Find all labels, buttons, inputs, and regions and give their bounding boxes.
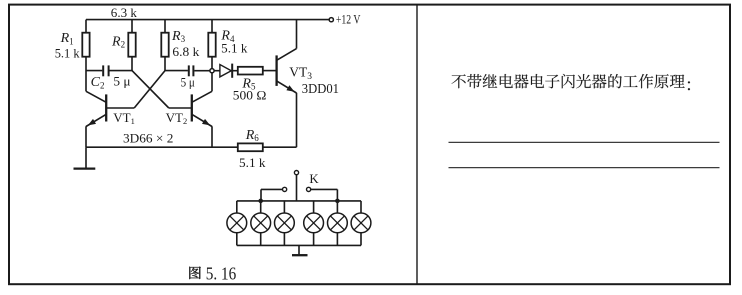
terminal +12 V xyxy=(329,18,333,22)
resistor R2 xyxy=(128,20,135,71)
svg-text:+12 V: +12 V xyxy=(336,12,361,27)
svg-text:R3: R3 xyxy=(171,29,186,44)
svg-text:K: K xyxy=(309,172,319,186)
svg-text:5. 16: 5. 16 xyxy=(206,263,236,283)
svg-text:VT1: VT1 xyxy=(113,110,135,126)
transistor VT2 xyxy=(169,73,212,147)
answer line 2 xyxy=(449,167,720,169)
transistor VT1 xyxy=(86,91,134,147)
resistor R1 xyxy=(82,20,89,92)
ground (left, emitter) xyxy=(74,147,96,168)
lamp L6 xyxy=(351,201,371,246)
wire: lamp bottom bus xyxy=(237,244,361,246)
junction dot (lamp 2 feed) xyxy=(258,199,263,204)
lamp L4 xyxy=(304,201,324,246)
transistor VT3 xyxy=(277,20,297,148)
svg-text:VT2: VT2 xyxy=(166,110,188,126)
resistor R6 xyxy=(238,143,297,151)
resistor R5 xyxy=(238,67,277,75)
svg-text:5.1 k: 5.1 k xyxy=(221,41,248,55)
svg-text:3D66 × 2: 3D66 × 2 xyxy=(123,130,173,145)
svg-text:5 μ: 5 μ xyxy=(113,73,130,88)
switch K right contact xyxy=(307,187,338,201)
lamp L5 xyxy=(328,201,348,246)
svg-text:R1: R1 xyxy=(60,31,74,46)
diode D xyxy=(214,64,238,78)
svg-text:R6: R6 xyxy=(245,128,260,143)
svg-text:6.3 k: 6.3 k xyxy=(111,5,138,20)
ground (lamp bank) xyxy=(292,245,308,255)
resistor R4 xyxy=(208,20,215,69)
capacitor C3 (5u coupling, right) xyxy=(165,65,210,76)
wire: R3 node to VT1 base (diagonal) xyxy=(134,71,165,108)
junction dot (lamp 5 feed) xyxy=(335,199,340,204)
label: figure caption 图 5.16 xyxy=(189,263,236,283)
svg-text:5.1 k: 5.1 k xyxy=(239,156,266,170)
wire: emitter bus (VT1/VT2 emitters to R6) xyxy=(86,146,238,148)
svg-text:R2: R2 xyxy=(111,34,125,49)
lamp L3 xyxy=(275,201,295,246)
svg-text:5.1 k: 5.1 k xyxy=(55,46,81,60)
wire: +12 V supply rail xyxy=(86,19,329,21)
svg-text:6.8 k: 6.8 k xyxy=(172,45,200,59)
capacitor C2 xyxy=(86,65,132,76)
node: VT2 collector / R4 / diode junction xyxy=(210,69,214,73)
switch K pole terminal xyxy=(294,171,298,201)
svg-text:VT3: VT3 xyxy=(289,64,312,81)
wire: lamp top bus xyxy=(237,200,361,202)
answer line 1 xyxy=(449,141,720,143)
svg-text:5 μ: 5 μ xyxy=(181,74,195,89)
lamp L2 xyxy=(251,201,271,246)
label: heading 不带继电器电子闪光器的工作原理： xyxy=(452,74,690,90)
lamp L1 xyxy=(227,201,247,246)
switch K left contact xyxy=(261,187,287,201)
wire: R2 node to VT2 base (diagonal) xyxy=(132,71,169,108)
svg-text:3DD01: 3DD01 xyxy=(302,81,339,96)
svg-text:C2: C2 xyxy=(91,75,105,90)
resistor R3 xyxy=(161,20,168,71)
svg-text:500 Ω: 500 Ω xyxy=(233,87,267,102)
